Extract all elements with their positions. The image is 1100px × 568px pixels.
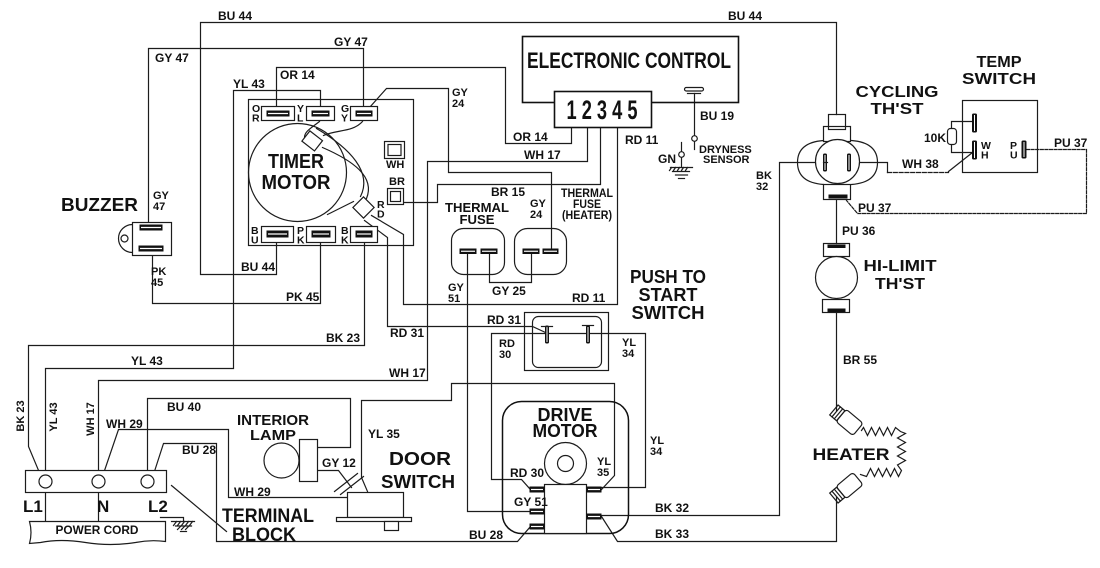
svg-text:N: N — [97, 497, 109, 516]
svg-text:WH 17: WH 17 — [85, 402, 97, 436]
svg-text:RD 31: RD 31 — [487, 313, 521, 327]
svg-text:OR 14: OR 14 — [513, 130, 548, 144]
svg-text:24: 24 — [530, 209, 543, 221]
svg-text:10K: 10K — [924, 131, 946, 145]
svg-text:35: 35 — [597, 467, 609, 479]
svg-text:CYCLING: CYCLING — [856, 84, 939, 101]
svg-text:(HEATER): (HEATER) — [562, 210, 612, 222]
svg-text:WH 29: WH 29 — [106, 417, 143, 431]
svg-text:WH 17: WH 17 — [389, 366, 426, 380]
svg-text:PU 37: PU 37 — [858, 201, 892, 215]
svg-text:YL 43: YL 43 — [233, 77, 265, 91]
svg-text:BU 28: BU 28 — [469, 528, 503, 542]
svg-text:BK 33: BK 33 — [655, 527, 689, 541]
svg-text:BK 32: BK 32 — [655, 501, 689, 515]
svg-text:30: 30 — [499, 349, 511, 361]
svg-text:Y: Y — [341, 113, 348, 125]
svg-text:R: R — [252, 113, 260, 125]
svg-text:U: U — [251, 235, 259, 247]
svg-text:34: 34 — [622, 348, 635, 360]
svg-text:RD 30: RD 30 — [510, 466, 544, 480]
svg-text:24: 24 — [452, 98, 465, 110]
svg-text:BU 28: BU 28 — [182, 443, 216, 457]
svg-text:BK 23: BK 23 — [326, 331, 360, 345]
svg-text:PU 36: PU 36 — [842, 224, 876, 238]
svg-text:BR 15: BR 15 — [491, 185, 525, 199]
svg-text:GY 51: GY 51 — [514, 495, 548, 509]
svg-text:TH'ST: TH'ST — [871, 101, 924, 118]
svg-text:START: START — [639, 285, 698, 305]
svg-text:BK 23: BK 23 — [15, 400, 27, 431]
svg-text:MOTOR: MOTOR — [262, 172, 332, 194]
svg-text:BUZZER: BUZZER — [61, 195, 138, 215]
svg-text:BU 19: BU 19 — [700, 109, 734, 123]
svg-text:HI-LIMIT: HI-LIMIT — [864, 258, 937, 275]
svg-text:47: 47 — [153, 201, 165, 213]
svg-text:BU 44: BU 44 — [241, 260, 275, 274]
svg-text:32: 32 — [756, 181, 768, 193]
svg-text:TIMER: TIMER — [268, 151, 324, 173]
svg-text:WH 29: WH 29 — [234, 485, 271, 499]
svg-text:1 2 3 4 5: 1 2 3 4 5 — [567, 95, 638, 125]
svg-text:SWITCH: SWITCH — [381, 472, 455, 492]
svg-text:BR: BR — [389, 176, 405, 188]
svg-text:ELECTRONIC CONTROL: ELECTRONIC CONTROL — [527, 48, 731, 73]
svg-text:SENSOR: SENSOR — [703, 154, 750, 166]
svg-text:GY 47: GY 47 — [334, 35, 368, 49]
svg-text:WH 17: WH 17 — [524, 148, 561, 162]
svg-text:PU 37: PU 37 — [1054, 136, 1088, 150]
svg-text:BU 44: BU 44 — [218, 9, 252, 23]
svg-text:L1: L1 — [23, 497, 43, 516]
svg-text:TEMP: TEMP — [977, 54, 1022, 71]
svg-text:TERMINAL: TERMINAL — [222, 506, 314, 527]
svg-text:34: 34 — [650, 446, 663, 458]
svg-text:DOOR: DOOR — [389, 449, 451, 469]
svg-text:GY 47: GY 47 — [155, 51, 189, 65]
svg-text:YL 35: YL 35 — [368, 427, 400, 441]
svg-text:L: L — [297, 113, 304, 125]
svg-text:HEATER: HEATER — [813, 445, 890, 464]
svg-text:51: 51 — [448, 293, 460, 305]
svg-text:PUSH TO: PUSH TO — [630, 267, 706, 287]
svg-text:RD 31: RD 31 — [390, 326, 424, 340]
svg-text:BLOCK: BLOCK — [232, 525, 296, 546]
svg-text:MOTOR: MOTOR — [533, 421, 598, 441]
svg-text:BU 44: BU 44 — [728, 9, 762, 23]
svg-text:PK 45: PK 45 — [286, 290, 320, 304]
svg-text:GN: GN — [658, 152, 676, 166]
svg-text:RD 11: RD 11 — [572, 291, 606, 305]
svg-text:45: 45 — [151, 277, 163, 289]
svg-text:SWITCH: SWITCH — [632, 303, 705, 323]
svg-text:RD 11: RD 11 — [625, 133, 659, 147]
svg-text:D: D — [377, 209, 385, 221]
svg-text:YL 43: YL 43 — [48, 402, 60, 431]
svg-text:YL 43: YL 43 — [131, 354, 163, 368]
svg-text:POWER CORD: POWER CORD — [56, 523, 139, 537]
svg-text:U: U — [1010, 150, 1018, 162]
svg-text:LAMP: LAMP — [250, 427, 296, 444]
svg-text:WH 38: WH 38 — [902, 157, 939, 171]
svg-text:H: H — [981, 150, 989, 162]
svg-text:L2: L2 — [148, 497, 168, 516]
svg-text:GY 25: GY 25 — [492, 284, 526, 298]
svg-text:K: K — [341, 235, 349, 247]
svg-text:K: K — [297, 235, 305, 247]
svg-text:BR 55: BR 55 — [843, 353, 877, 367]
svg-text:WH: WH — [386, 159, 404, 171]
svg-text:GY 12: GY 12 — [322, 456, 356, 470]
svg-text:TH'ST: TH'ST — [875, 276, 925, 293]
svg-text:SWITCH: SWITCH — [962, 71, 1036, 88]
svg-text:BU 40: BU 40 — [167, 400, 201, 414]
svg-text:FUSE: FUSE — [460, 212, 495, 227]
svg-text:OR 14: OR 14 — [280, 68, 315, 82]
